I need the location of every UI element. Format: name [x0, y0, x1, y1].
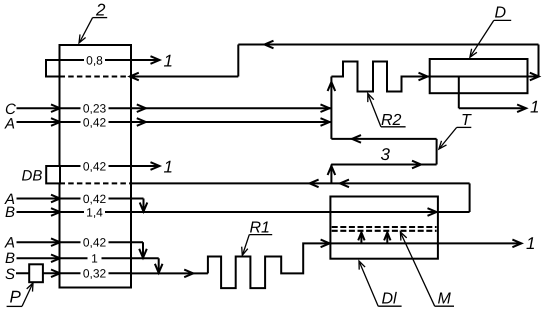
svg-text:P: P [10, 288, 22, 307]
wire: DI outlet to product 1 [330, 240, 521, 248]
svg-text:0,42: 0,42 [83, 159, 107, 173]
column 2 (main rectangle) [60, 45, 132, 288]
value 0,42 (A middle) [81, 192, 109, 206]
wire: stream 3 lower run [328, 139, 437, 184]
label Dl with leader [359, 261, 402, 308]
wire: column bottoms 0,32 to R1 [131, 270, 208, 278]
wire: row A 0,42 (lower) merging into B 1 [17, 238, 147, 257]
label 2 with leader [79, 1, 107, 44]
svg-text:B: B [5, 250, 15, 267]
wire: through D to top-right riser [429, 73, 539, 81]
label 3 [381, 145, 391, 164]
wire: row C 0,23 [17, 104, 332, 112]
svg-text:A: A [4, 116, 15, 133]
value 0,42 (A lower) [81, 236, 109, 250]
DB side box [46, 166, 60, 183]
value 1 [88, 252, 102, 266]
value 0,8 [84, 53, 105, 67]
svg-text:1,4: 1,4 [86, 205, 103, 219]
svg-text:1: 1 [530, 98, 539, 117]
wire: stream 3 upper run [331, 135, 436, 143]
value 0,32 [81, 267, 109, 281]
value 0,42 (row C/A block) [81, 115, 109, 129]
label M with leader [400, 232, 454, 308]
value 1,4 [84, 205, 105, 219]
label D with leader [470, 5, 511, 58]
wire: row B 1,4 through DI to riser [17, 208, 470, 216]
label 1 (DI bottom product) [526, 234, 535, 253]
wire: distillate from D to product 1 [459, 77, 526, 113]
P box on S feed [29, 264, 43, 282]
label R2 with leader [368, 94, 406, 130]
svg-text:M: M [438, 291, 452, 308]
wire: permeate up-arrows inside DI [358, 232, 390, 243]
side box at row 0,8 [46, 60, 60, 77]
node B feed label (middle) [5, 204, 15, 221]
wire: row S 0,32 feed through P box into column [16, 270, 131, 278]
wire: row 0,8 with outlet arrow to product 1 [46, 56, 160, 64]
value 0,42 (DB row) [81, 159, 109, 173]
svg-text:0,42: 0,42 [83, 115, 107, 129]
condenser D (rectangle) [430, 59, 528, 93]
svg-text:1: 1 [164, 157, 173, 176]
label R1 with leader [242, 220, 273, 256]
label 1 (top product of column) [164, 51, 173, 70]
svg-text:T: T [461, 112, 472, 129]
membrane M (double dashed line) [332, 227, 437, 231]
svg-text:3: 3 [381, 145, 391, 164]
node DB label [22, 167, 43, 184]
wire: row 0,42 DB with outlet arrow to product 1 [46, 162, 159, 170]
svg-text:2: 2 [95, 1, 106, 20]
heater R1 (zigzag) [208, 240, 330, 289]
svg-text:0,23: 0,23 [83, 102, 107, 116]
svg-text:0,42: 0,42 [83, 192, 107, 206]
svg-text:1: 1 [91, 252, 98, 266]
wire: row A 0,42 (upper) [17, 118, 332, 126]
node A feed label (lower) [4, 235, 15, 252]
dashed internal line below 0,8 [60, 76, 132, 78]
separator DI (rectangle) [330, 197, 438, 259]
svg-text:0,42: 0,42 [83, 236, 107, 250]
wire: row B 1 merging into S 0,32 [17, 255, 163, 273]
svg-text:1: 1 [164, 51, 173, 70]
svg-text:Dl: Dl [382, 291, 398, 308]
wire: feed vertical to R2 [328, 77, 336, 139]
dashed internal line below DB [60, 182, 132, 184]
svg-text:0,8: 0,8 [86, 53, 103, 67]
wire: reflux return from D to column (dashed row) [130, 41, 539, 81]
svg-text:DB: DB [22, 167, 43, 184]
node B feed label (lower) [5, 250, 15, 267]
label T with leader [439, 112, 472, 149]
node C feed label [5, 101, 16, 118]
node A feed label (upper) [4, 116, 15, 133]
svg-text:0,32: 0,32 [83, 267, 107, 281]
heater R2 (zigzag) [331, 62, 429, 92]
svg-text:S: S [5, 266, 15, 283]
label P with leader [7, 283, 33, 307]
label 1 (DB side product) [164, 157, 173, 176]
svg-text:1: 1 [526, 234, 535, 253]
value 0,23 [81, 102, 109, 116]
svg-text:B: B [5, 204, 15, 221]
svg-text:D: D [495, 5, 507, 22]
node S feed label [5, 266, 15, 283]
node A feed label (middle) [4, 191, 15, 208]
label 1 (distillate product) [530, 98, 539, 117]
wire: return from DI to column dashed row [131, 180, 470, 212]
wire: row A 0,42 (middle) merging into B 1,4 [17, 195, 148, 212]
